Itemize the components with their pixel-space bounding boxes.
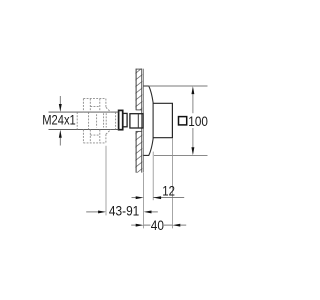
sleeve step line [137, 114, 139, 128]
handle knob [153, 103, 172, 137]
extension line from handle front [171, 138, 173, 228]
M24x1 dimension line segments [59, 96, 61, 146]
dimension 40 left arrowhead [136, 224, 144, 227]
wall opening bottom edge [136, 130, 142, 132]
valve flange [119, 110, 123, 129]
wall top cap [136, 68, 142, 70]
dimension 43-91 left arrowhead [98, 211, 106, 214]
dimension 40 right arrowhead [172, 224, 180, 227]
square symbol of dimension 100 [179, 117, 187, 125]
M24x1 upper arrowhead [59, 104, 62, 112]
extension line from wall face [143, 173, 145, 228]
wall left edge [135, 69, 137, 173]
dimension 100 bottom extension line [154, 154, 208, 156]
wall section hatching [134, 67, 143, 175]
thread outline top (M24x1 reference line) [49, 111, 119, 113]
valve spindle [123, 113, 127, 126]
extension line from escutcheon front [152, 152, 154, 201]
valve body bottom hex connection (hidden lines) [83, 130, 110, 143]
M24x1 lower arrowhead [59, 130, 62, 138]
extension sleeve [130, 114, 143, 128]
dimension 100 top extension line [149, 85, 208, 87]
wall finished surface line [142, 69, 144, 173]
dimension 43-91 right arrowhead [144, 211, 152, 214]
dimension 40 line segments [131, 224, 186, 226]
svg-text:43-91: 43-91 [109, 204, 139, 219]
wall opening top edge [136, 109, 142, 111]
valve body top hex connection (hidden lines) [83, 99, 110, 113]
dimension 43-91 line segments [86, 211, 158, 213]
svg-text:M24x1: M24x1 [42, 113, 76, 128]
dimension 100 upper arrowhead [191, 86, 194, 94]
dimension 12 line segments [132, 197, 185, 199]
dimension 100 lower arrowhead [191, 147, 194, 155]
wall right edge [141, 69, 143, 173]
dimension 12 right arrowhead [153, 196, 161, 199]
svg-text:40: 40 [151, 218, 164, 233]
svg-text:12: 12 [162, 183, 175, 198]
thread outline bottom (M24x1 reference line) [49, 129, 119, 131]
extension line from valve body reference [105, 146, 107, 216]
svg-text:100: 100 [188, 114, 208, 129]
escutcheon plate profile [143, 86, 153, 155]
dimension 100 vertical dimension line [192, 94, 194, 148]
concealed valve body (hidden lines) [77, 112, 115, 130]
dimension 12 left arrowhead [136, 196, 144, 199]
